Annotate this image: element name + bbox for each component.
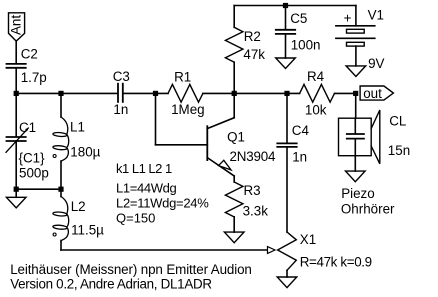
svg-text:9V: 9V <box>368 56 384 71</box>
svg-text:Leithäuser (Meissner) npn Emit: Leithäuser (Meissner) npn Emitter Audion <box>10 262 252 277</box>
svg-text:2N3904: 2N3904 <box>230 149 276 164</box>
svg-text:R3: R3 <box>244 183 261 198</box>
svg-text:R1: R1 <box>174 70 191 85</box>
svg-text:C4: C4 <box>292 123 310 138</box>
svg-text:Q1: Q1 <box>227 129 245 144</box>
svg-text:Ant: Ant <box>9 15 24 35</box>
svg-text:C1: C1 <box>19 120 36 135</box>
svg-text:Ohrhörer: Ohrhörer <box>341 201 395 216</box>
svg-text:R2: R2 <box>244 29 261 44</box>
svg-text:1n: 1n <box>113 102 128 117</box>
svg-text:C3: C3 <box>113 69 130 84</box>
svg-text:3.3k: 3.3k <box>243 203 269 218</box>
svg-text:15n: 15n <box>388 143 410 158</box>
svg-text:C5: C5 <box>290 11 307 26</box>
svg-text:10k: 10k <box>305 103 327 118</box>
svg-text:500p: 500p <box>19 166 49 181</box>
svg-text:L1: L1 <box>70 120 85 135</box>
svg-text:X1: X1 <box>300 232 316 247</box>
svg-text:CL: CL <box>389 113 406 128</box>
svg-text:Piezo: Piezo <box>341 186 375 201</box>
svg-text:R4: R4 <box>307 69 325 84</box>
svg-text:11.5µ: 11.5µ <box>71 222 104 237</box>
svg-text:100n: 100n <box>291 37 321 52</box>
svg-text:C2: C2 <box>21 47 38 62</box>
svg-text:V1: V1 <box>368 8 384 23</box>
svg-text:L1=44Wdg: L1=44Wdg <box>116 181 177 196</box>
svg-text:+: + <box>344 11 352 26</box>
svg-text:R=47k k=0.9: R=47k k=0.9 <box>300 255 372 270</box>
svg-text:L2: L2 <box>71 199 86 214</box>
svg-text:out: out <box>363 86 382 101</box>
svg-text:47k: 47k <box>243 47 265 62</box>
svg-text:k1 L1 L2 1: k1 L1 L2 1 <box>116 161 172 176</box>
svg-text:1n: 1n <box>292 149 307 164</box>
svg-text:L2=11Wdg=24%: L2=11Wdg=24% <box>116 196 209 211</box>
svg-text:Version 0.2, Andre Adrian, DL1: Version 0.2, Andre Adrian, DL1ADR <box>10 277 212 292</box>
svg-text:{C1}: {C1} <box>19 151 46 166</box>
svg-text:1.7p: 1.7p <box>21 70 47 85</box>
svg-text:Q=150: Q=150 <box>116 210 155 225</box>
svg-text:180µ: 180µ <box>70 144 100 159</box>
svg-text:1Meg: 1Meg <box>171 102 205 117</box>
